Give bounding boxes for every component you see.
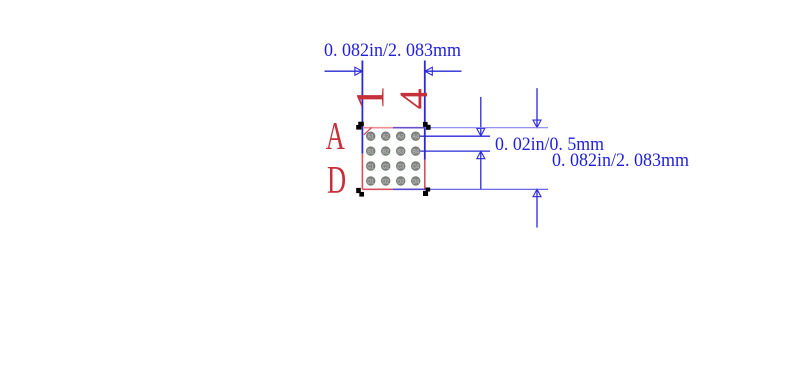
svg-text:C4: C4 (412, 164, 419, 171)
svg-text:A1: A1 (367, 134, 374, 141)
svg-text:A3: A3 (397, 134, 404, 141)
svg-text:C1: C1 (367, 164, 374, 171)
svg-text:C2: C2 (382, 164, 389, 171)
svg-text:1: 1 (348, 85, 393, 111)
svg-text:B3: B3 (397, 149, 404, 156)
svg-text:D3: D3 (397, 178, 404, 185)
svg-text:A: A (326, 114, 345, 158)
svg-text:D2: D2 (382, 178, 389, 185)
svg-text:B4: B4 (412, 149, 419, 156)
svg-text:D4: D4 (412, 178, 419, 185)
svg-text:C3: C3 (397, 164, 404, 171)
svg-text:A4: A4 (412, 134, 419, 141)
svg-text:D: D (327, 158, 346, 202)
svg-text:0. 082in/2. 083mm: 0. 082in/2. 083mm (552, 150, 689, 171)
svg-text:A2: A2 (382, 134, 389, 141)
svg-text:4: 4 (391, 89, 436, 110)
svg-text:D1: D1 (367, 178, 374, 185)
svg-text:B2: B2 (382, 149, 389, 156)
svg-text:0. 082in/2. 083mm: 0. 082in/2. 083mm (324, 40, 461, 61)
svg-text:B1: B1 (367, 149, 374, 156)
